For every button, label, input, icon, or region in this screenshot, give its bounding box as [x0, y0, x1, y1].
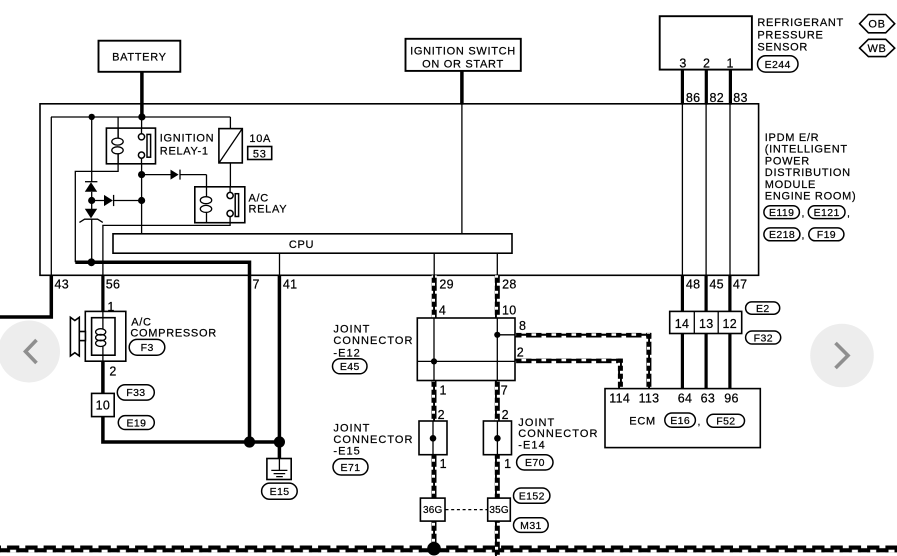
svg-text:POWER: POWER: [765, 155, 810, 167]
junction node ground bus: [88, 258, 96, 266]
svg-text:E71: E71: [341, 462, 361, 474]
svg-text:3: 3: [679, 56, 686, 70]
wire fuse block 10 to ground bus (thick): [103, 417, 280, 442]
junction node relay out / D4: [138, 171, 145, 178]
svg-text:M31: M31: [520, 520, 542, 532]
connector code OB: [860, 15, 895, 33]
svg-text:RELAY-1: RELAY-1: [160, 145, 209, 157]
svg-text:F32: F32: [754, 332, 773, 344]
shielded wire E12 pin2 to ECM 114 horizontal: [515, 359, 623, 364]
svg-text:F3: F3: [141, 342, 154, 354]
junction node pin7/ground bus: [244, 436, 255, 447]
wire IPDM 47 to joint 12 (thick): [728, 275, 731, 311]
svg-text:IGNITION SWITCH: IGNITION SWITCH: [410, 46, 516, 58]
svg-text:CPU: CPU: [289, 239, 314, 251]
svg-text:47: 47: [733, 278, 748, 292]
label joint connector E12: [333, 323, 413, 359]
svg-text:64: 64: [678, 392, 693, 406]
svg-text:7: 7: [501, 383, 508, 397]
wire ignition relay coil feed: [117, 117, 119, 139]
wire A/C relay contact out to pin 56: [103, 217, 230, 275]
wire compressor to fuse block 10 (thick): [101, 361, 105, 393]
svg-text:F52: F52: [716, 416, 735, 428]
diode D4: [171, 170, 181, 180]
wire bus to fuse: [229, 117, 231, 129]
connector ref E19: [118, 416, 154, 430]
svg-text:REFRIGERANT: REFRIGERANT: [757, 17, 844, 29]
svg-text:1: 1: [726, 56, 733, 70]
zener diode D2: [79, 209, 102, 223]
svg-text:BATTERY: BATTERY: [112, 52, 167, 64]
wire between diodes: [91, 192, 93, 209]
joint connector E14 box: [483, 408, 511, 471]
svg-text:2: 2: [703, 56, 710, 70]
connector code WB: [860, 39, 895, 56]
svg-text:IGNITION: IGNITION: [160, 132, 215, 144]
shielded wire E12 pin7 to E14: [495, 381, 500, 422]
joint connector E15 box: [419, 408, 447, 471]
page boundary bar: [0, 546, 897, 553]
wire sensor pin 1 (thick): [729, 69, 732, 104]
shielded wire 36G to page bar: [432, 521, 437, 546]
svg-text:-E12: -E12: [333, 347, 360, 359]
svg-text:F33: F33: [126, 387, 145, 399]
pin labels 86 82 83: [686, 91, 748, 105]
shielded wire 35G to page edge: [495, 521, 500, 556]
label joint connector E14: [518, 417, 598, 452]
svg-text:7: 7: [253, 278, 260, 292]
svg-text:10: 10: [96, 398, 111, 412]
connector ref E71: [333, 459, 368, 475]
ignition relay IGNITION RELAY-1: [106, 128, 214, 164]
svg-text:13: 13: [699, 317, 714, 331]
svg-text:1: 1: [440, 457, 447, 471]
svg-text:10A: 10A: [249, 133, 271, 145]
svg-text:E121: E121: [814, 207, 840, 219]
IPDM bottom pin labels: [55, 278, 748, 292]
svg-text:2: 2: [502, 408, 509, 422]
label refrigerant pressure sensor: [757, 17, 844, 53]
svg-text:ECM: ECM: [629, 415, 656, 427]
svg-text:,: ,: [698, 416, 701, 428]
wire CPU pin29 stub: [433, 253, 435, 275]
connector ref F33: [117, 385, 154, 400]
shielded wire E12 pin8 to ECM 113 horizontal: [515, 333, 651, 338]
svg-text:E45: E45: [340, 361, 360, 373]
svg-text:RELAY: RELAY: [249, 203, 288, 215]
svg-text:,: ,: [802, 230, 805, 242]
wire pin41 to ground junction (thick): [278, 275, 282, 442]
svg-text:E15: E15: [270, 486, 290, 498]
wire pin43 exit to left (thick): [0, 275, 51, 317]
svg-text:WB: WB: [867, 43, 886, 55]
wire relay contact to CPU: [141, 158, 143, 234]
wire ground symbol stub (thick): [278, 440, 282, 459]
svg-text:ENGINE ROOM): ENGINE ROOM): [765, 191, 857, 203]
svg-text:E244: E244: [765, 59, 791, 71]
connector ref F19: [809, 228, 844, 241]
svg-text:ON OR START: ON OR START: [422, 59, 504, 71]
connector ref M31: [514, 518, 549, 533]
splice 35G: [488, 498, 511, 521]
label IPDM E/R: [765, 132, 857, 203]
connector ref E121: [808, 206, 850, 220]
A/C compressor: [85, 300, 217, 378]
svg-text:(INTELLIGENT: (INTELLIGENT: [765, 144, 848, 156]
svg-text:JOINT: JOINT: [333, 323, 370, 335]
junction node bus/diode branch: [89, 114, 95, 120]
svg-text:8: 8: [519, 319, 526, 333]
junction node relay out / D3: [138, 197, 145, 204]
svg-text:,: ,: [802, 208, 805, 220]
svg-text:83: 83: [733, 91, 748, 105]
svg-text:1: 1: [440, 383, 447, 397]
ground symbol E15: [267, 459, 291, 480]
wire top bus y117: [51, 116, 230, 118]
battery B1 box: [99, 41, 181, 72]
wire sensor pin 3 (thick): [681, 69, 684, 104]
wire diode D4 row: [142, 175, 207, 187]
A/C relay: [195, 187, 287, 223]
wire joint 12 to ECM 96 (thick): [728, 334, 731, 389]
shielded wire pin29 to E12: [432, 275, 437, 318]
connector ref E70: [517, 455, 553, 470]
wire ignition relay coil exit jog: [75, 153, 118, 262]
diode D1: [85, 182, 98, 192]
nav chevron right: [810, 324, 874, 388]
svg-text:43: 43: [55, 278, 70, 292]
svg-text:114: 114: [609, 392, 630, 406]
connector ref E15: [262, 483, 298, 499]
shielded wire E15 to 36G: [432, 455, 437, 498]
connector ref F52: [707, 414, 745, 427]
svg-text:E152: E152: [519, 491, 545, 503]
dashed link 36G-35G: [446, 509, 488, 511]
ignition switch box: [406, 39, 521, 71]
svg-text:2: 2: [109, 364, 116, 378]
junction node pin41/ground bus: [274, 436, 285, 447]
connector ref E16: [665, 413, 701, 428]
svg-text:CONNECTOR: CONNECTOR: [518, 428, 598, 440]
refrigerant pressure sensor box: [660, 16, 752, 70]
connector ref E218: [764, 228, 805, 242]
connector ref E244: [758, 56, 799, 72]
svg-text:113: 113: [639, 392, 660, 406]
svg-text:82: 82: [710, 91, 725, 105]
svg-text:28: 28: [502, 278, 517, 292]
fuse block junction box 10: [92, 393, 115, 416]
svg-text:IPDM E/R: IPDM E/R: [765, 132, 820, 144]
shielded wire ECM 113 vertical: [646, 333, 651, 389]
svg-text:2: 2: [517, 345, 524, 359]
diode D3: [104, 195, 114, 206]
svg-text:CONNECTOR: CONNECTOR: [333, 434, 413, 446]
ECM box: [605, 389, 760, 448]
wire fuse to A/C relay contact: [229, 163, 231, 193]
svg-text:10: 10: [502, 304, 517, 318]
svg-text:-E15: -E15: [333, 446, 360, 458]
shielded wire ECM 114 vertical: [618, 359, 623, 389]
wire CPU pin41 stub: [279, 253, 281, 275]
svg-text:41: 41: [283, 278, 298, 292]
svg-text:45: 45: [709, 278, 724, 292]
svg-text:86: 86: [686, 91, 701, 105]
svg-text:53: 53: [253, 148, 267, 160]
wire battery to relay contact: [141, 117, 143, 134]
svg-text:96: 96: [724, 392, 739, 406]
svg-text:E119: E119: [769, 207, 794, 219]
wire ignition switch to CPU: [461, 104, 463, 234]
svg-text:-E14: -E14: [518, 439, 545, 451]
wire joint 13 to ECM 63 (thick): [704, 334, 707, 389]
wire pin43 vertical: [50, 117, 52, 275]
wire ignition switch feed (thick): [460, 71, 464, 105]
wire ground bus to pin7 (thick): [75, 262, 249, 442]
svg-text:29: 29: [439, 278, 454, 292]
svg-text:E2: E2: [756, 303, 770, 315]
fuse block connector 14 13 12: [670, 311, 742, 333]
svg-text:CONNECTOR: CONNECTOR: [333, 335, 413, 347]
wire diode branch upper: [91, 117, 93, 182]
wire sensor net 83 internal: [729, 104, 731, 275]
svg-text:12: 12: [723, 317, 738, 331]
connector ref E45: [333, 359, 368, 374]
svg-text:1: 1: [504, 457, 511, 471]
svg-text:SENSOR: SENSOR: [757, 41, 808, 53]
connector ref E119: [764, 206, 805, 220]
svg-text:,: ,: [847, 208, 850, 220]
wire IPDM 48 to joint 14 (thick): [681, 275, 684, 311]
junction node diode branch / D3: [88, 197, 95, 204]
svg-text:35G: 35G: [489, 505, 509, 516]
shielded wire E12 pin1 to E15: [432, 381, 437, 422]
CPU box: [113, 234, 512, 253]
junction node battery/bus: [138, 113, 145, 120]
junction node page bar: [427, 542, 441, 556]
svg-text:JOINT: JOINT: [518, 417, 555, 429]
wire battery feed (thick): [140, 72, 144, 118]
svg-text:COMPRESSOR: COMPRESSOR: [130, 327, 216, 339]
svg-text:E70: E70: [525, 457, 545, 469]
connector ref E2: [746, 302, 780, 315]
connector ref E152: [514, 488, 550, 503]
wire sensor net 86 internal: [681, 104, 683, 275]
shielded wire E14 to 35G: [495, 455, 500, 498]
wire IPDM 45 to joint 13 (thick): [704, 275, 707, 311]
joint connector E12 box: [417, 304, 526, 398]
fuse 10A #53: [219, 129, 272, 163]
svg-text:PRESSURE: PRESSURE: [757, 29, 823, 41]
svg-text:48: 48: [686, 278, 701, 292]
wire pin56 to compressor (thick): [101, 275, 104, 311]
wire CPU pin28 stub: [496, 253, 498, 275]
compressor pulley: [70, 317, 85, 356]
svg-text:MODULE: MODULE: [765, 179, 816, 191]
svg-text:JOINT: JOINT: [333, 423, 370, 435]
svg-text:2: 2: [438, 408, 445, 422]
svg-text:63: 63: [701, 392, 716, 406]
svg-text:DISTRIBUTION: DISTRIBUTION: [765, 167, 851, 179]
wire sensor pin 2 (thick): [705, 69, 708, 104]
label joint connector E15: [333, 423, 413, 458]
wire sensor net 82 internal: [705, 104, 707, 275]
svg-text:F19: F19: [817, 229, 836, 241]
wire below zener: [91, 219, 93, 263]
splice 36G: [420, 498, 445, 521]
svg-text:36G: 36G: [423, 505, 443, 516]
wire diode D3 row: [92, 200, 142, 202]
svg-text:E16: E16: [670, 415, 690, 427]
svg-text:56: 56: [106, 278, 121, 292]
svg-text:E19: E19: [126, 417, 146, 429]
svg-text:4: 4: [439, 304, 446, 318]
connector ref F3: [129, 339, 165, 355]
nav chevron left: [0, 321, 60, 383]
shielded wire pin28 to E12: [495, 275, 500, 318]
svg-text:E218: E218: [769, 229, 795, 241]
IPDM E/R enclosure box: [40, 104, 759, 275]
svg-text:OB: OB: [868, 19, 885, 31]
wire joint 14 to ECM 64 (thick): [681, 334, 684, 389]
svg-text:14: 14: [675, 317, 690, 331]
connector ref F32: [746, 331, 781, 344]
